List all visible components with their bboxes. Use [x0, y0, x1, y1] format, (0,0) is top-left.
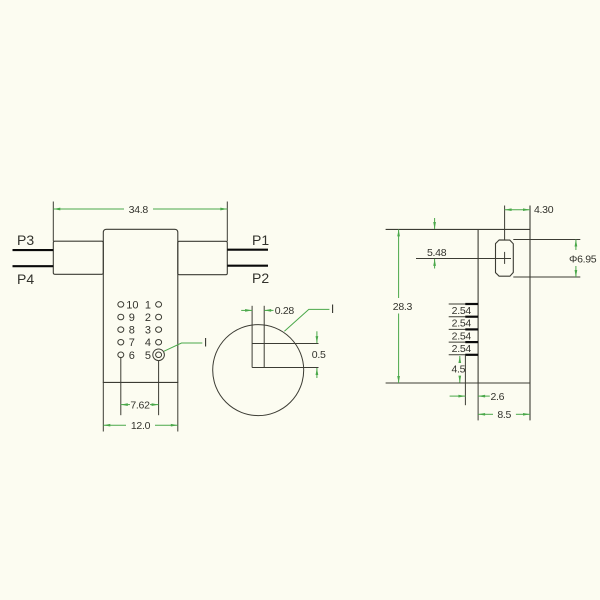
dimension 0.28: [241, 305, 294, 317]
svg-text:2.54: 2.54: [452, 343, 472, 355]
label P1: [252, 232, 269, 248]
svg-text:5.48: 5.48: [427, 247, 447, 259]
left edge extension below bottom: [477, 383, 479, 420]
svg-text:2.54: 2.54: [452, 330, 472, 342]
leader I from pin 5: [164, 337, 207, 351]
detail pin end line: [252, 367, 318, 369]
svg-text:2: 2: [145, 312, 151, 324]
svg-text:4: 4: [145, 337, 151, 349]
body outline: [103, 229, 178, 382]
lens centerline horizontal: [416, 258, 511, 260]
svg-text:10: 10: [126, 299, 138, 311]
svg-text:7.62: 7.62: [130, 400, 150, 412]
svg-text:I: I: [204, 337, 207, 349]
svg-text:0.5: 0.5: [312, 349, 326, 361]
dimension 4.5: [452, 356, 466, 383]
svg-text:2.54: 2.54: [452, 305, 472, 317]
pin holes right column with numbers 1-5: [145, 299, 165, 361]
left flange: [53, 241, 103, 274]
svg-text:4.30: 4.30: [534, 204, 554, 216]
side view bottom edge: [386, 382, 530, 384]
pin holes left column with numbers 10-6: [118, 299, 139, 361]
svg-text:28.3: 28.3: [393, 301, 413, 313]
svg-text:1: 1: [145, 299, 151, 311]
side view top edge: [386, 228, 530, 230]
dimension 0.5: [312, 331, 326, 378]
right flange: [178, 241, 228, 274]
side view right edge: [529, 206, 531, 421]
svg-text:P1: P1: [252, 232, 269, 248]
dimension 12.0: [103, 382, 178, 432]
svg-text:P4: P4: [17, 271, 34, 287]
label P4: [17, 271, 34, 287]
dimension 5.48: [427, 218, 447, 269]
svg-text:I: I: [331, 304, 334, 316]
svg-text:7: 7: [129, 337, 135, 349]
detail pin right edge: [263, 306, 265, 368]
side view left edge: [477, 229, 479, 383]
svg-text:34.8: 34.8: [129, 204, 149, 216]
wire P2 fiber: [227, 265, 268, 267]
dimension diameter 6.95: [513, 240, 596, 278]
side view pin rows with 2.54 dimensions: [449, 304, 478, 355]
svg-text:9: 9: [129, 312, 135, 324]
svg-text:P2: P2: [252, 270, 269, 286]
svg-text:3: 3: [145, 325, 151, 337]
detail body bottom line: [252, 343, 318, 345]
dimension 28.3: [393, 229, 413, 383]
lens boss: [496, 240, 514, 276]
detail pin left edge: [251, 306, 253, 368]
label P3: [17, 232, 34, 248]
detail circle: [213, 325, 304, 416]
dimension 4.30: [505, 204, 554, 240]
label P2: [252, 270, 269, 286]
dimension 7.62: [121, 358, 159, 415]
svg-text:6: 6: [129, 350, 135, 362]
wire P1 fiber: [227, 249, 268, 251]
svg-text:2.54: 2.54: [452, 318, 472, 330]
wire P3 fiber: [13, 249, 54, 251]
leader I to detail circle: [284, 304, 334, 331]
svg-text:P3: P3: [17, 232, 34, 248]
svg-text:0.28: 0.28: [275, 305, 295, 317]
svg-text:Φ6.95: Φ6.95: [569, 253, 597, 265]
svg-text:2.6: 2.6: [491, 391, 505, 403]
svg-text:12.0: 12.0: [131, 420, 151, 432]
svg-text:8: 8: [129, 325, 135, 337]
wire P4 fiber: [13, 265, 54, 267]
svg-text:4.5: 4.5: [452, 364, 466, 376]
lens centerline vertical: [504, 252, 506, 264]
svg-text:8.5: 8.5: [497, 409, 511, 421]
dimension 8.5: [478, 409, 530, 421]
dimension 34.8: [53, 202, 227, 242]
svg-text:5: 5: [145, 350, 151, 362]
dimension 2.6: [450, 355, 505, 405]
